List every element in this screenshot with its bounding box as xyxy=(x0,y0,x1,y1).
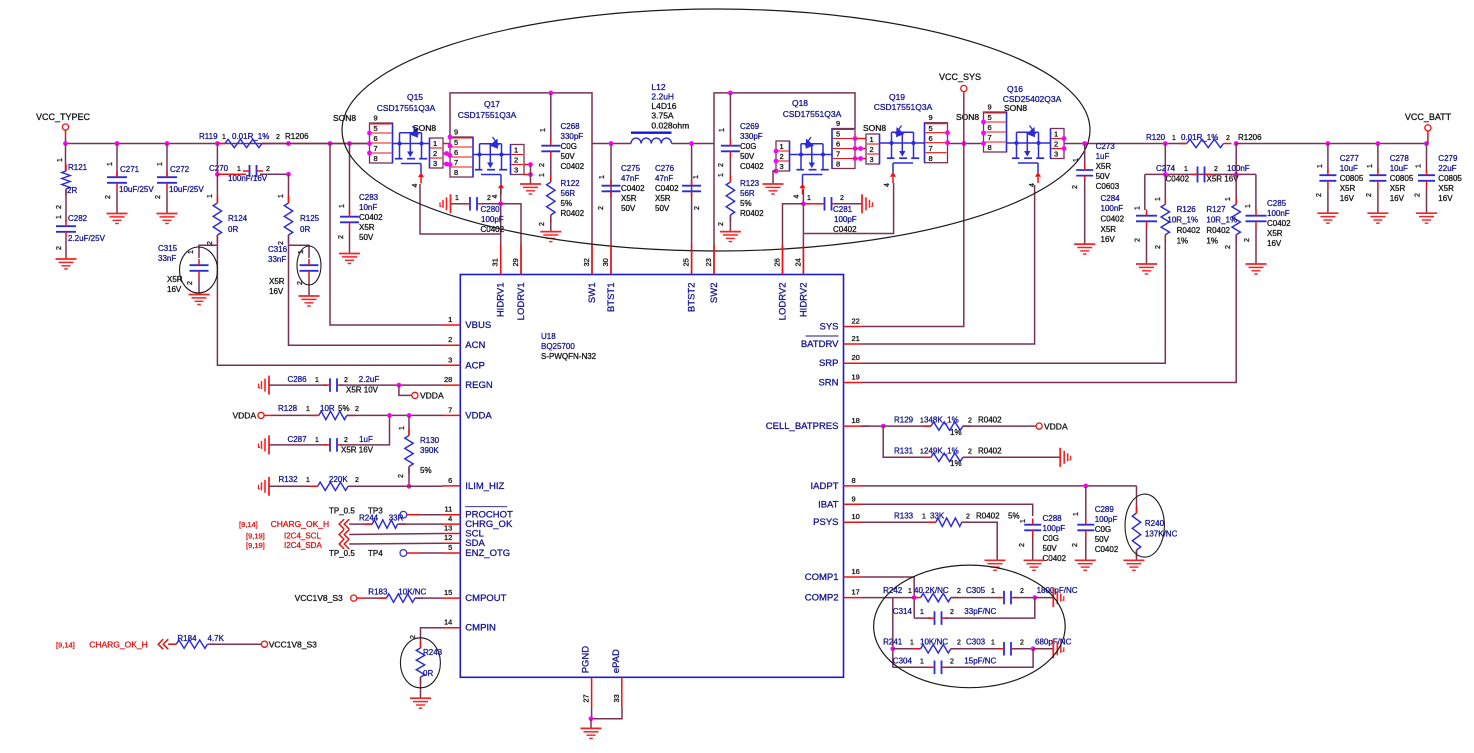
svg-text:2: 2 xyxy=(840,195,844,202)
svg-text:C281: C281 xyxy=(833,205,853,214)
svg-text:BATDRV: BATDRV xyxy=(801,339,839,350)
wire COMP1 to C314 xyxy=(862,577,915,618)
svg-text:33nF: 33nF xyxy=(158,254,176,263)
svg-text:LODRV1: LODRV1 xyxy=(516,283,527,321)
pin 3 ACP xyxy=(442,364,460,366)
svg-text:21: 21 xyxy=(852,334,860,343)
svg-text:2: 2 xyxy=(56,205,63,209)
svg-text:C271: C271 xyxy=(120,165,140,174)
svg-text:1: 1 xyxy=(57,158,64,162)
svg-text:8: 8 xyxy=(929,154,933,163)
svg-text:ePAD: ePAD xyxy=(611,649,622,673)
svg-text:13: 13 xyxy=(444,524,452,533)
ground below Q17 xyxy=(520,183,541,185)
svg-text:1: 1 xyxy=(306,406,310,413)
wire IBAT to C288 xyxy=(862,504,1033,516)
svg-text:100pF: 100pF xyxy=(1095,515,1118,524)
capacitor C304 xyxy=(893,666,931,668)
svg-text:Q16: Q16 xyxy=(1007,84,1023,94)
svg-text:Q17: Q17 xyxy=(484,99,500,109)
svg-text:9: 9 xyxy=(836,119,840,128)
svg-text:C0G: C0G xyxy=(1095,525,1111,534)
svg-text:C0G: C0G xyxy=(740,142,756,151)
svg-text:50V: 50V xyxy=(1096,172,1111,181)
svg-text:2: 2 xyxy=(718,163,725,167)
pin 24 HIDRV2 xyxy=(802,245,804,275)
transistor Q19 mosfet xyxy=(880,142,925,144)
svg-text:2: 2 xyxy=(487,195,491,202)
transistor Q17 mosfet xyxy=(473,154,511,156)
resistor R121 xyxy=(65,144,67,172)
svg-text:100pF: 100pF xyxy=(481,215,504,224)
wire Q19 drain to Q16 xyxy=(948,143,984,145)
svg-text:BTST1: BTST1 xyxy=(606,283,617,313)
svg-text:1: 1 xyxy=(922,514,926,521)
svg-text:TP_0.5: TP_0.5 xyxy=(329,549,355,558)
svg-text:2: 2 xyxy=(56,246,63,250)
ground below C277 xyxy=(1317,212,1338,214)
svg-text:CELL_BATPRES: CELL_BATPRES xyxy=(766,421,839,432)
svg-text:17: 17 xyxy=(852,588,860,597)
svg-text:2: 2 xyxy=(1020,640,1024,647)
pin 25 BTST2 xyxy=(691,245,693,275)
svg-text:10: 10 xyxy=(852,512,860,521)
svg-text:R124: R124 xyxy=(228,214,248,223)
svg-text:R0402: R0402 xyxy=(976,512,1000,521)
pin 1 VBUS xyxy=(442,324,460,326)
wire Q18 gate to LODRV2 xyxy=(802,189,804,275)
svg-text:2: 2 xyxy=(344,437,348,444)
svg-text:1: 1 xyxy=(315,377,319,384)
svg-text:2: 2 xyxy=(1019,543,1026,547)
svg-text:18: 18 xyxy=(852,416,860,425)
svg-text:BTST2: BTST2 xyxy=(687,283,698,313)
ground below C285 xyxy=(1246,263,1267,265)
svg-text:2: 2 xyxy=(1415,193,1422,197)
svg-text:ENZ_OTG: ENZ_OTG xyxy=(465,548,510,559)
svg-text:0.028ohm: 0.028ohm xyxy=(651,121,689,131)
pin 6 ILIM_HIZ xyxy=(442,485,460,487)
svg-text:2: 2 xyxy=(780,152,784,161)
svg-text:R0402: R0402 xyxy=(978,447,1002,456)
svg-text:0R: 0R xyxy=(423,669,433,678)
wire CMPIN to R243 xyxy=(421,628,443,648)
wire R126 to SRP pin 20 xyxy=(862,235,1166,364)
svg-text:TP_0.5: TP_0.5 xyxy=(329,507,355,516)
svg-text:1: 1 xyxy=(157,162,164,166)
svg-text:SRN: SRN xyxy=(818,378,838,389)
pin 20 SRP xyxy=(844,362,862,364)
svg-text:2: 2 xyxy=(355,477,359,484)
svg-text:C287: C287 xyxy=(287,435,307,444)
svg-text:C272: C272 xyxy=(170,165,190,174)
svg-text:R133: R133 xyxy=(894,512,914,521)
svg-text:220K: 220K xyxy=(329,475,348,484)
svg-text:4.7K: 4.7K xyxy=(208,634,225,643)
svg-text:C0805: C0805 xyxy=(1340,174,1364,183)
svg-text:C288: C288 xyxy=(1043,514,1063,523)
pin 31 HIDRV1 xyxy=(500,245,502,275)
svg-text:15pF/NC: 15pF/NC xyxy=(964,657,996,666)
svg-text:50V: 50V xyxy=(621,204,636,213)
resistor R131 xyxy=(883,426,931,457)
transistor Q18 mosfet xyxy=(790,154,833,156)
svg-text:7: 7 xyxy=(929,144,933,153)
svg-text:1: 1 xyxy=(1135,206,1142,210)
svg-text:50V: 50V xyxy=(1095,535,1110,544)
capacitor C273 xyxy=(1082,141,1087,146)
svg-text:6: 6 xyxy=(836,140,840,149)
svg-text:C278: C278 xyxy=(1390,154,1410,163)
svg-text:HIDRV1: HIDRV1 xyxy=(496,283,507,318)
pin 16 COMP1 xyxy=(844,576,862,578)
wire COMP2 to R241 xyxy=(862,597,915,599)
svg-text:2: 2 xyxy=(1135,238,1142,242)
pin 13 SCL xyxy=(442,533,460,535)
svg-text:C276: C276 xyxy=(655,164,675,173)
svg-text:30: 30 xyxy=(601,258,610,266)
svg-text:2: 2 xyxy=(1054,140,1058,149)
svg-text:2: 2 xyxy=(950,659,954,666)
svg-text:3: 3 xyxy=(514,166,518,175)
transistor Q16 source box 1-3 xyxy=(1051,129,1065,159)
svg-text:R130: R130 xyxy=(420,436,440,445)
svg-text:Q18: Q18 xyxy=(792,98,808,108)
svg-text:10nF: 10nF xyxy=(359,203,377,212)
transistor Q17 pad box 5-8 xyxy=(450,137,473,177)
svg-text:5: 5 xyxy=(374,124,378,133)
resistor R243 xyxy=(416,648,424,677)
svg-text:1: 1 xyxy=(718,173,725,177)
svg-text:X5R: X5R xyxy=(269,277,285,286)
svg-text:C280: C280 xyxy=(481,205,501,214)
svg-text:1: 1 xyxy=(920,609,924,616)
svg-text:7: 7 xyxy=(448,405,452,414)
svg-text:2: 2 xyxy=(968,449,972,456)
svg-text:C277: C277 xyxy=(1340,154,1360,163)
svg-text:C0G: C0G xyxy=(561,142,577,151)
svg-text:S-PWQFN-N32: S-PWQFN-N32 xyxy=(541,352,597,361)
pin 26 LODRV2 xyxy=(782,245,784,275)
capacitor C285 xyxy=(1255,174,1257,210)
svg-text:1: 1 xyxy=(540,128,547,132)
svg-text:C0402: C0402 xyxy=(833,225,857,234)
svg-text:33nF: 33nF xyxy=(268,255,286,264)
svg-text:2: 2 xyxy=(155,195,162,199)
svg-text:VCC_BATT: VCC_BATT xyxy=(1405,112,1452,122)
svg-text:C282: C282 xyxy=(68,214,88,223)
svg-text:1uF: 1uF xyxy=(1096,152,1110,161)
ic U18 BQ25700 box xyxy=(460,275,843,678)
svg-text:2: 2 xyxy=(1244,238,1251,242)
svg-text:5%: 5% xyxy=(338,404,350,413)
svg-text:33: 33 xyxy=(612,694,621,702)
svg-text:2: 2 xyxy=(433,149,437,158)
port VCC1V8_S3 bottom xyxy=(261,641,267,647)
port VDDA at REGN xyxy=(399,385,412,395)
svg-text:19: 19 xyxy=(852,373,860,382)
svg-text:SON8: SON8 xyxy=(863,123,886,133)
svg-text:ILIM_HIZ: ILIM_HIZ xyxy=(465,481,504,492)
svg-text:6: 6 xyxy=(448,476,452,485)
svg-text:4: 4 xyxy=(492,194,499,198)
svg-text:1: 1 xyxy=(599,175,606,179)
wire R125 to ACN and C316 xyxy=(289,235,443,345)
svg-text:2: 2 xyxy=(950,609,954,616)
svg-text:C286: C286 xyxy=(287,375,307,384)
svg-text:1%: 1% xyxy=(1206,236,1218,245)
svg-text:27: 27 xyxy=(582,694,591,702)
svg-text:1: 1 xyxy=(339,204,346,208)
svg-text:2: 2 xyxy=(187,281,194,285)
capacitor C272 xyxy=(166,144,168,178)
svg-text:VDDA: VDDA xyxy=(233,411,257,421)
svg-text:R132: R132 xyxy=(278,475,298,484)
svg-text:C0402: C0402 xyxy=(621,184,645,193)
svg-text:Q15: Q15 xyxy=(407,92,423,102)
svg-text:C0805: C0805 xyxy=(1390,174,1414,183)
capacitor C286 REGN xyxy=(268,376,270,395)
wire Q19 gate to HIDRV2 xyxy=(803,183,893,234)
svg-text:1: 1 xyxy=(56,215,63,219)
svg-text:IADPT: IADPT xyxy=(811,481,839,492)
svg-text:C0402: C0402 xyxy=(561,162,585,171)
svg-text:1: 1 xyxy=(448,315,452,324)
resistor R130 xyxy=(408,415,410,435)
ellipse around C316 xyxy=(297,246,321,285)
svg-text:4: 4 xyxy=(412,183,419,187)
ground below C316 xyxy=(299,295,320,297)
svg-text:R125: R125 xyxy=(300,214,320,223)
ground below R240 xyxy=(1123,559,1144,561)
pin 4 CHRG_OK xyxy=(442,523,460,525)
svg-text:C315: C315 xyxy=(158,244,178,253)
svg-text:TP4: TP4 xyxy=(368,549,383,558)
wire R127 to SRN pin 19 xyxy=(862,235,1237,383)
svg-text:R1206: R1206 xyxy=(285,132,309,141)
wire PSYS R133 xyxy=(862,521,936,523)
svg-text:1: 1 xyxy=(908,588,912,595)
transistor Q15 pad box 5-8 xyxy=(370,123,393,163)
svg-text:R0402: R0402 xyxy=(1177,226,1201,235)
wire Q18 drain to Q19 source xyxy=(855,138,866,140)
svg-text:C283: C283 xyxy=(359,193,379,202)
svg-text:2: 2 xyxy=(1225,245,1232,249)
svg-text:1: 1 xyxy=(107,162,114,166)
svg-text:1: 1 xyxy=(514,146,518,155)
wire Q16 source to VCC_BATT rail xyxy=(1064,143,1187,145)
svg-text:1: 1 xyxy=(780,142,784,151)
svg-text:C0603: C0603 xyxy=(1096,182,1120,191)
svg-text:16V: 16V xyxy=(1390,194,1405,203)
svg-text:4: 4 xyxy=(448,514,452,523)
svg-text:C275: C275 xyxy=(621,164,641,173)
svg-text:C303: C303 xyxy=(966,638,986,647)
svg-text:22uF: 22uF xyxy=(1438,164,1456,173)
svg-text:2: 2 xyxy=(1226,135,1230,142)
svg-text:10uF: 10uF xyxy=(1340,164,1358,173)
svg-text:2: 2 xyxy=(1155,245,1162,249)
svg-text:SON8: SON8 xyxy=(1004,103,1027,113)
svg-text:2: 2 xyxy=(598,206,605,210)
capacitor C289 xyxy=(1085,486,1087,519)
pin 17 COMP2 xyxy=(844,597,862,599)
ground rotated at C303 xyxy=(1052,639,1054,658)
resistor R126 xyxy=(1235,144,1237,175)
svg-text:1: 1 xyxy=(433,139,437,148)
port VDDA right xyxy=(1036,423,1042,429)
svg-text:100nF: 100nF xyxy=(1101,204,1124,213)
pin 21 BATDRV xyxy=(844,343,862,345)
capacitor C276 bootstrap 2 xyxy=(691,144,693,275)
svg-text:2: 2 xyxy=(207,241,214,245)
wire SW1 to pin 32 xyxy=(591,144,593,275)
svg-text:2: 2 xyxy=(266,166,270,173)
resistor R125 xyxy=(288,174,290,203)
wire CELL_BATPRES xyxy=(862,425,871,427)
svg-text:47nF: 47nF xyxy=(621,174,639,183)
ground rotated at C305 xyxy=(1052,588,1054,607)
ground below C283 xyxy=(339,253,360,255)
svg-text:Q19: Q19 xyxy=(889,92,905,102)
ground below C272 xyxy=(157,213,178,215)
svg-text:24: 24 xyxy=(793,258,802,266)
svg-text:2: 2 xyxy=(1072,543,1079,547)
svg-text:ACP: ACP xyxy=(465,360,485,371)
svg-text:R127: R127 xyxy=(1206,205,1226,214)
svg-text:0R: 0R xyxy=(300,225,310,234)
svg-text:ACN: ACN xyxy=(465,340,485,351)
transistor Q15 mosfet xyxy=(393,143,430,145)
svg-text:R119: R119 xyxy=(199,132,218,141)
svg-text:6: 6 xyxy=(988,123,992,132)
svg-text:C0402: C0402 xyxy=(359,213,383,222)
pin 2 ACN xyxy=(442,344,460,346)
svg-text:X5R: X5R xyxy=(1390,184,1406,193)
svg-text:1: 1 xyxy=(693,175,700,179)
svg-text:PSYS: PSYS xyxy=(813,517,838,528)
resistor R123 xyxy=(726,182,734,215)
svg-text:3: 3 xyxy=(870,155,874,164)
svg-text:X5R 16V: X5R 16V xyxy=(341,446,374,455)
capacitor C278 xyxy=(1377,144,1379,173)
svg-text:2: 2 xyxy=(448,335,452,344)
capacitor C279 xyxy=(1426,144,1428,173)
svg-text:16V: 16V xyxy=(269,287,284,296)
resistor R240 xyxy=(1136,486,1138,513)
svg-text:R241: R241 xyxy=(883,638,903,647)
resistor R129 xyxy=(883,425,931,427)
svg-text:5: 5 xyxy=(448,543,452,552)
capacitor C280 xyxy=(450,194,452,213)
svg-text:6: 6 xyxy=(929,134,933,143)
wire SW2 vertical xyxy=(713,144,715,275)
svg-text:[9,14]: [9,14] xyxy=(239,520,258,529)
svg-text:1%: 1% xyxy=(950,428,962,437)
svg-text:100pF: 100pF xyxy=(1043,524,1066,533)
svg-text:C0402: C0402 xyxy=(655,184,679,193)
svg-text:11: 11 xyxy=(445,505,453,514)
pin 9 IBAT xyxy=(844,503,862,505)
pin 19 SRN xyxy=(844,382,862,384)
svg-text:6: 6 xyxy=(374,134,378,143)
svg-text:R126: R126 xyxy=(1177,205,1197,214)
svg-text:10R_1%: 10R_1% xyxy=(1206,216,1237,225)
svg-text:50V: 50V xyxy=(655,204,670,213)
svg-text:COMP2: COMP2 xyxy=(805,593,839,604)
svg-text:26: 26 xyxy=(773,258,782,266)
svg-text:10uF: 10uF xyxy=(1390,164,1408,173)
svg-text:0R: 0R xyxy=(228,225,238,234)
wire VBUS from rail xyxy=(330,144,443,326)
wire Q17 gate to LODRV1 xyxy=(501,204,521,275)
svg-text:VCC1V8_S3: VCC1V8_S3 xyxy=(295,593,343,603)
svg-text:22: 22 xyxy=(852,317,860,326)
svg-text:25: 25 xyxy=(682,258,691,266)
svg-text:2: 2 xyxy=(514,156,518,165)
svg-text:1: 1 xyxy=(719,128,726,132)
svg-text:2: 2 xyxy=(1316,193,1323,197)
svg-text:1: 1 xyxy=(306,477,310,484)
svg-text:3: 3 xyxy=(780,162,784,171)
svg-text:20: 20 xyxy=(852,353,860,362)
wire Q16 gate to BATDRV xyxy=(862,185,1035,344)
ground rotated at R131 xyxy=(1059,448,1061,467)
svg-text:0.01R_1%: 0.01R_1% xyxy=(232,132,269,141)
pin 32 SW1 xyxy=(591,245,593,275)
svg-text:SW1: SW1 xyxy=(587,283,598,304)
svg-text:2.2uH: 2.2uH xyxy=(651,92,674,102)
svg-text:5: 5 xyxy=(454,138,458,147)
svg-text:16V: 16V xyxy=(167,285,182,294)
svg-text:I2C4_SDA: I2C4_SDA xyxy=(284,541,322,550)
capacitor C303 xyxy=(1003,642,1005,656)
svg-text:3: 3 xyxy=(433,159,437,168)
ground below C282 xyxy=(56,258,77,260)
svg-text:8: 8 xyxy=(836,160,840,169)
svg-text:C269: C269 xyxy=(740,122,760,131)
ellipse around COMP network xyxy=(874,565,1066,688)
svg-text:VCC_SYS: VCC_SYS xyxy=(939,72,981,82)
svg-text:VDDA: VDDA xyxy=(1044,422,1068,432)
pin 33 ePAD xyxy=(621,677,623,707)
svg-text:L4D16: L4D16 xyxy=(651,101,676,111)
svg-text:R0402: R0402 xyxy=(561,209,585,218)
pin 15 CMPOUT xyxy=(442,597,460,599)
svg-text:X5R: X5R xyxy=(1438,184,1454,193)
svg-text:5%: 5% xyxy=(420,466,432,475)
wire PGND ePAD to ground xyxy=(592,707,622,718)
svg-text:C0402: C0402 xyxy=(1043,554,1067,563)
svg-text:2: 2 xyxy=(966,514,970,521)
svg-text:100nF: 100nF xyxy=(1227,164,1250,173)
svg-text:X5R: X5R xyxy=(1096,162,1112,171)
svg-text:2: 2 xyxy=(968,418,972,425)
svg-text:10uF/25V: 10uF/25V xyxy=(169,185,204,194)
svg-text:16V: 16V xyxy=(1101,235,1116,244)
svg-text:BQ25700: BQ25700 xyxy=(541,342,575,351)
svg-text:1uF: 1uF xyxy=(359,435,373,444)
svg-text:CMPOUT: CMPOUT xyxy=(465,593,506,604)
transistor Q16 mosfet xyxy=(1007,142,1051,144)
svg-text:2: 2 xyxy=(539,163,546,167)
svg-text:C270: C270 xyxy=(209,164,229,173)
svg-text:VCC1V8_S3: VCC1V8_S3 xyxy=(269,640,317,650)
svg-text:56R: 56R xyxy=(561,189,576,198)
svg-text:1: 1 xyxy=(1054,130,1058,139)
svg-text:R129: R129 xyxy=(894,416,914,425)
svg-text:X5R 10V: X5R 10V xyxy=(346,386,379,395)
